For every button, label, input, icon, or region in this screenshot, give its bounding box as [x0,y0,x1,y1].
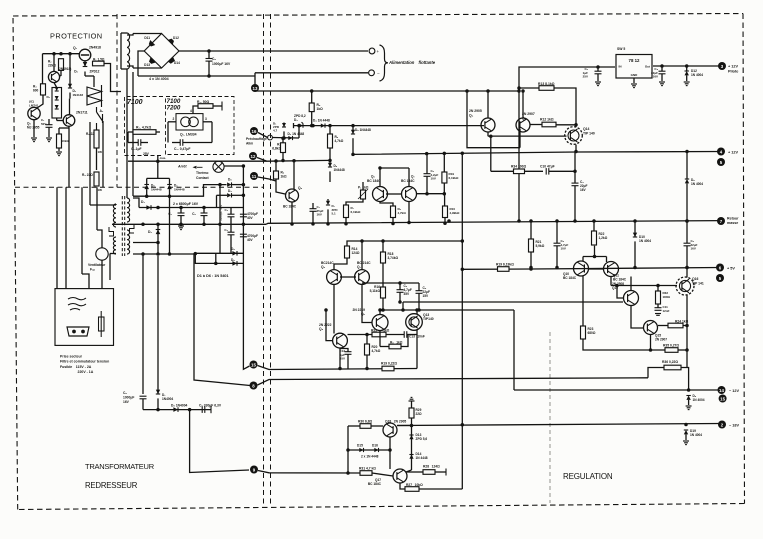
svg-text:Retour: Retour [727,217,739,221]
wire C12 bottom [347,354,349,368]
transformer secondary upper winding [127,198,130,222]
junction [68,52,72,56]
wire R20 top [366,335,368,345]
transistor Q5 BC184C [286,189,299,202]
wire D4h feed [216,195,218,207]
svg-text:R30 6,8Ω: R30 6,8Ω [358,420,373,424]
wire 15 link right [258,366,418,370]
junction [346,471,350,475]
svg-text:Préchauffage: Préchauffage [246,137,267,141]
section divider dashed line right [270,14,272,505]
svg-text:TIP 141: TIP 141 [692,281,704,285]
wire Q6 top [379,168,381,187]
resistor R28 124 [423,470,435,475]
wire winding bottom bar [121,68,127,70]
junction [615,284,619,288]
junction [311,124,315,128]
wire C2 filter top [203,208,205,213]
wire bridge plus output rail [179,50,368,52]
wire D8v column lower [146,189,148,196]
svg-text:12nF: 12nF [663,309,670,313]
outer dashed border left [13,16,18,510]
svg-text:12: 12 [251,154,256,159]
wire R6 bottom to Q5 base [276,179,286,194]
resistor R32 180 [656,291,661,304]
svg-text:1kΩ: 1kΩ [281,175,288,179]
wire R9 bottom [329,148,331,160]
wire C1b bottom [312,211,314,224]
terminal 5 upper [717,158,725,166]
svg-text:600: 600 [33,89,39,93]
label Q13 TIP140 [423,313,434,321]
terminal 14 [718,386,726,394]
ground below C1 [46,138,52,142]
junction [649,348,653,352]
junction [573,170,577,174]
wire C8 bottom lead [208,61,210,76]
svg-text:− 12V: − 12V [729,389,739,393]
capacitor C13 10nF [404,331,407,338]
wire Q8 emitter [339,348,341,369]
svg-text:Contact: Contact [196,176,209,180]
svg-text:22Ω: 22Ω [416,412,423,416]
svg-text:R13 8,1kΩ: R13 8,1kΩ [538,82,555,86]
terminal 13 [251,84,259,92]
wire rail 13 [255,90,518,92]
label 7200 module [167,98,181,111]
svg-text:SW 5: SW 5 [617,47,625,51]
wire D12 top [686,66,688,71]
wire Q8 base [326,310,333,341]
wire D7 column [157,256,159,394]
wire R23 bottom [583,339,665,350]
wire C7 left lead [172,142,180,144]
diode stack box D2 D3 D4 [52,88,62,119]
resistor R36 0.22 [664,365,681,370]
wire R13 rail [519,87,539,89]
wire Q6 Q7 collector link [386,193,402,195]
diode D8h [227,182,231,186]
wire Q6d emitter down [333,284,335,333]
svg-text:R₂. 4,7kΩ: R₂. 4,7kΩ [136,126,151,130]
wire R30 left [348,425,360,427]
terminal 4 [717,148,725,156]
wire Q11 emitter drop [610,277,612,286]
label C5 4.7uF 10V [431,169,439,181]
wire C5 reg top [556,221,558,243]
wire long 467 column [467,91,520,148]
junction [685,150,689,154]
svg-text:2N1711: 2N1711 [76,111,88,115]
wire fan feed [96,187,98,230]
junction [443,221,447,225]
transistor Q2 [48,71,59,82]
junction [156,252,160,256]
diode D14 1N4448 [409,455,413,459]
junction [596,65,600,69]
label IC LM741 [29,100,39,108]
arret arrowhead [193,166,197,169]
label R22 1.2k [599,232,608,240]
svg-text:D11: D11 [144,36,150,40]
resistor R33 1k [372,332,386,337]
junction [214,262,218,266]
wire D4h to column [232,194,244,196]
label C12 1uF 35V [339,349,345,361]
junction [398,281,402,285]
diode D4 in stack [55,105,59,109]
junction [168,252,172,256]
label Q5 MJ2955 [27,122,40,130]
transformer primary upper winding [113,204,116,227]
wire C9 top [597,67,599,71]
svg-text:R12 1kΩ: R12 1kΩ [540,118,554,122]
wire Q5 emitter [33,120,35,137]
wire R28 end bar [445,469,447,476]
bridge feed winding [127,33,130,69]
wire Q15 emitter drop [650,335,652,351]
svg-text:6,19kΩ: 6,19kΩ [449,176,460,180]
svg-text:16V: 16V [691,247,696,251]
svg-text:R34 100Ω: R34 100Ω [511,164,526,168]
wire center tap [133,242,158,244]
label R9b 4.7k [398,207,407,215]
wire R5 bottom [58,148,60,151]
wire Q9 collector [522,91,524,118]
junction [461,268,465,272]
terminal 7 [717,217,725,225]
ground on dc rail [178,226,184,230]
junction [521,89,525,93]
label R5 1k [317,103,324,111]
svg-text:10V: 10V [431,177,436,181]
svg-text:Arrêt: Arrêt [177,165,187,169]
svg-text:IN: IN [619,65,622,69]
svg-text:15V: 15V [423,294,430,298]
junction [242,164,246,168]
svg-text:D₃: D₃ [294,118,298,122]
diode D18 1N4004 [686,396,690,400]
wire R36 loop [648,368,664,378]
label R18 3.74k [388,252,399,260]
wire bridge feed col b [132,72,134,196]
relay coil K1 chevrons [87,85,102,107]
terminal 6 [716,264,724,272]
diode D3 in stack [55,96,59,100]
wire R13 to Q14 [554,88,576,127]
wire P1 top [362,182,364,190]
wire R22 top [593,221,595,231]
junction [156,223,160,227]
svg-text:-Aux-: -Aux- [159,156,166,160]
resistor R14 124 [345,246,350,258]
svg-text:C₆ 330μF 6,3V: C₆ 330μF 6,3V [199,404,222,408]
wire R30 right to Q18 [371,425,383,427]
wire C4 top stub [230,224,232,232]
wire D6 bottom stub [329,171,331,182]
wire Q6 Q7 top link [380,167,409,169]
junction [365,333,369,337]
wire R27 to riser [419,488,462,490]
wire -18V rail [397,424,722,426]
wire LM334 pin3 lead [203,121,212,123]
transistor Q9 [516,118,530,132]
transistor Q5 MJ2955 [28,107,40,119]
wire C6 reg top [686,221,688,243]
svg-text:680Ω: 680Ω [588,331,596,335]
svg-text:10V: 10V [561,247,566,251]
capacitor C10 47uF [546,168,549,175]
resistor R4 6.8k [281,143,286,153]
label D10 1N4004 [639,235,651,243]
wire R1 left lead [193,106,198,114]
junction [529,266,533,270]
wire R29 top [411,401,413,408]
svg-text:Prise secteur: Prise secteur [60,355,83,359]
label Ventilateur Fan [88,263,106,272]
wire Q9 to R12 [530,124,542,126]
junction [59,52,63,56]
junction [344,222,348,226]
label +12V Pilote [728,65,738,74]
capacitor C1 25uF [310,209,317,212]
wire coil to bridge bottom [133,67,162,69]
terminal 12 [249,152,257,160]
wire D5 rail [195,252,243,254]
svg-text:A₁: A₁ [100,109,104,113]
wire aux feed [157,156,159,179]
svg-text:Q16: Q16 [692,277,699,281]
wire Q6d Q7d bases [340,276,356,278]
junction [398,300,402,304]
wire 7100 left drop [127,132,129,143]
wire 16 to divider [258,133,268,138]
resistor R20 4.7k [365,344,370,355]
wire secondary bottom rail [133,253,196,255]
label D6 1N4448 [334,164,345,172]
junction [346,448,350,452]
capacitor C5 4700uF [240,214,247,217]
wire primary top stub [115,204,117,205]
resistor R9b 4.7k [391,206,396,218]
wire Q7d emitter down [362,284,373,322]
label C5 1000uF [123,391,134,404]
label Q12 2N2508 [612,282,624,290]
wire D5 D6 step [195,254,243,263]
wire R30 col down [347,426,349,473]
wire D2 column [157,224,159,254]
wire R2 right lead [156,131,160,133]
wire thermo line B [224,165,243,167]
ground D18 [686,406,692,410]
svg-text:BC 184C: BC 184C [563,276,577,280]
wire D7b top [327,199,329,201]
wire C3 top [230,208,232,215]
wire D1 bottom [69,93,71,99]
svg-text:4,99kΩ: 4,99kΩ [450,211,461,215]
svg-text:Q₇: Q₇ [357,265,362,269]
junction [593,255,597,259]
diode D8 clamp [685,179,689,183]
diode D10 reg [633,233,637,237]
wire Q4 emitter to Q14 base [488,135,567,137]
svg-text:D₆: D₆ [231,258,235,262]
capacitor C2 filter [201,213,208,216]
svg-text:4,7kΩ: 4,7kΩ [398,211,407,215]
wire preheat line A [128,160,267,162]
diode D1 rectifier [146,205,151,210]
svg-text:5,11kΩ: 5,11kΩ [370,289,381,293]
svg-text:1000μF: 1000μF [123,396,134,400]
capacitor C1 filter [178,213,185,216]
svg-text:4: 4 [190,109,192,113]
wire R24 to Q16 e [683,325,687,327]
paper crease dashed line [549,332,551,503]
junction [202,206,206,210]
resistor R16 5.11k [381,287,386,298]
wire D14 to Q17 [406,470,412,472]
resistor R8 1k lower [389,344,401,349]
label D7 ZPD5.1 [332,204,339,216]
ground D19 [683,441,689,445]
wire Q7 emitter [408,202,410,222]
label Q9 2N2907 [522,112,535,120]
wire bridge winding left leg [120,33,122,69]
junction [242,223,246,227]
wire R32 to C11 [657,304,659,308]
svg-text:D₈: D₈ [228,178,232,182]
wire bridge bottom rail [138,75,255,77]
wire Q9m collector [379,310,381,315]
transistor Q14 TIP140 [565,127,583,145]
wire Q3 base [57,120,64,122]
svg-text:1N4004: 1N4004 [162,397,173,401]
wire C3 to masse [574,186,576,221]
wire relay feed [85,75,94,77]
junction [207,74,211,78]
capacitor C8 output 22uF [659,71,666,74]
7100 module dashed box [125,97,164,156]
svg-text:R28 124Ω: R28 124Ω [423,465,440,469]
wire R5 bottom [311,112,313,126]
wire R12 to Q14 collector [556,124,576,126]
terminal 15 [250,361,258,369]
mains input box Prise secteur [55,289,114,346]
resistor R19 0.22 [382,366,394,371]
junction [179,206,183,210]
wire to terminal 15 drop [243,265,249,369]
diode D16 [374,448,378,452]
wire R10 bottom [443,183,445,194]
resistor P1 1k [361,190,366,199]
wire R18 top [382,241,384,252]
label R29 22 [416,408,423,416]
junction [486,89,490,93]
svg-text:Q₉: Q₉ [361,312,366,316]
mains filter wavy symbol [68,298,86,311]
svg-text:Q₆: Q₆ [321,265,326,269]
svg-text:+ 5V: + 5V [727,267,735,271]
junction [281,136,285,140]
bridge diode D12 [168,39,175,45]
wire Q10 Q11 base link [588,268,604,270]
junction [145,194,149,198]
label R10b 4.99k [450,207,461,215]
junction [311,222,315,226]
divider pass-through circle [268,135,273,140]
junction [574,123,578,127]
transistor Q15 [644,321,658,335]
diode D2 in stack [55,87,59,91]
wire C2 filter bottom [203,216,205,224]
junction [290,222,294,226]
junction [517,86,521,90]
diode D4 signal [321,124,325,128]
terminal 5 lower [716,274,724,282]
wire R10b bottom [444,218,446,224]
resistor R1 [93,61,105,66]
wire R8 right [401,335,408,347]
wire Q4 emitter [487,132,489,136]
junction [633,266,637,270]
junction [685,324,689,328]
transistor Q11 [604,262,619,277]
protection box dashed bottom edge [15,186,264,188]
junction [297,124,301,128]
svg-text:R₄ 22Ω: R₄ 22Ω [82,173,93,177]
svg-text:16: 16 [252,129,257,134]
svg-text:Q₄: Q₄ [469,113,474,117]
wire D18 bottom [688,400,690,405]
svg-text:35V: 35V [404,292,411,296]
wire C4m top [418,283,420,291]
transistor Q7 lower BC214C [355,270,370,285]
resistor R10b 4.99k [443,206,448,218]
wire Q14 col to C3 [574,152,576,183]
svg-text:Ventilateur: Ventilateur [88,263,106,267]
transistor Q9 2N2219 [372,315,388,331]
wire fan top lead [97,230,102,248]
junction [660,64,664,68]
junction [573,219,577,223]
diode D19 1N4004 [684,430,688,434]
wire C5 bottom [142,399,144,410]
junction [592,219,596,223]
svg-text:D₁: D₁ [141,200,145,204]
svg-text:D13: D13 [144,63,150,67]
wire Q2 collector [53,54,55,72]
junction [574,150,578,154]
label R4 6.8k [272,143,281,151]
junction [378,166,382,170]
svg-text:1N 4004: 1N 4004 [691,73,703,77]
wire -12V rail [514,389,722,391]
svg-text:D₅ 1N4448: D₅ 1N4448 [355,128,371,132]
outer dashed border top [13,14,743,17]
svg-text:C₅: C₅ [123,391,127,395]
wire R16 bottom [382,298,384,310]
wire D5 D6 tie [215,253,217,263]
transistor Q3 2N1711 [63,115,75,127]
svg-text:R31 4,7 kΩ: R31 4,7 kΩ [359,467,376,471]
svg-text:C₁.1μF: C₁.1μF [131,147,142,151]
diode D2 rectifier [156,230,161,235]
wire 8 link right [258,378,649,385]
wire stack top [54,83,57,88]
wire R1 end bar [221,102,223,111]
wire to terminal 9 [190,410,249,473]
label BC214C Q7d [357,261,371,269]
